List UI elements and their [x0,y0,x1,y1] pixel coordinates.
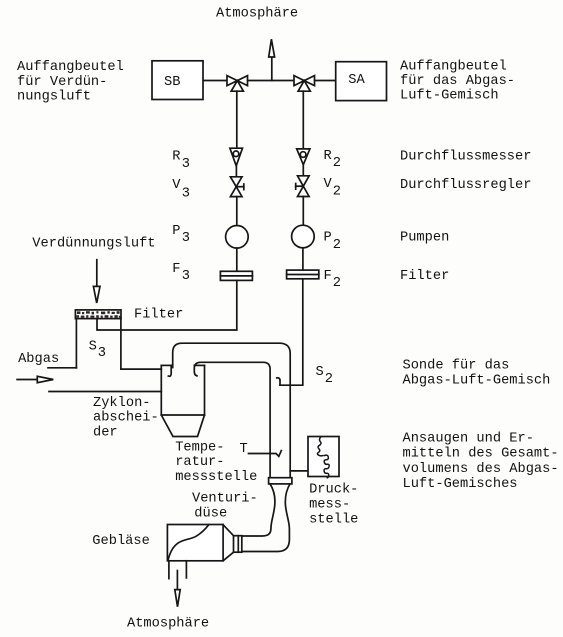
venturi left wall [241,484,275,536]
svg-text:2: 2 [333,238,341,253]
blower housing box [167,525,223,561]
svg-text:Luft-Gemisch: Luft-Gemisch [400,89,499,104]
venturi collar flange [269,478,292,484]
wire P3 to F3 [236,248,238,271]
svg-text:3: 3 [98,346,106,361]
pressure gauge box [308,437,339,477]
valve 3-way right [294,76,315,92]
wire left valve down to R3 [236,91,238,148]
pump P2 [292,225,315,248]
svg-text:Venturi-: Venturi- [192,492,258,507]
filter F3 [220,271,252,280]
svg-text:2: 2 [333,276,341,291]
blower flange [234,536,242,553]
svg-text:T: T [240,442,248,457]
svg-text:Abgas-Luft-Gemisch: Abgas-Luft-Gemisch [403,373,551,388]
chimney left wall [75,319,77,368]
svg-text:V: V [324,177,333,192]
pressure tap line [290,470,308,472]
flowmeter R2 [297,149,310,165]
svg-text:P: P [324,231,332,246]
pump P3 [226,226,249,249]
wire left valve to right valve [248,80,295,82]
crossover duct outer wall [173,343,291,478]
thermocouple T line [249,451,282,457]
cyclone body left wall [160,365,162,415]
chimney right wall [120,319,122,370]
valve V3 [230,177,243,197]
tank SB [152,61,203,100]
tank SA [336,62,387,101]
wire right valve to SA [315,80,336,82]
svg-text:F: F [324,269,332,284]
blower scroll curve [168,525,209,560]
blower outlet cone [223,525,233,561]
svg-text:Druck-: Druck- [309,483,358,498]
svg-text:Sonde für das: Sonde für das [403,358,510,373]
svg-text:nungsluft: nungsluft [17,90,91,105]
arrow exhaust down [175,571,180,607]
svg-text:2: 2 [333,185,341,200]
svg-text:Tempe-: Tempe- [175,440,224,455]
venturi right wall [241,484,290,552]
wire vent riser to atmosphere [271,57,273,81]
crossover duct inner wall / vortex finder [194,362,270,477]
inlet bottom edge [49,391,161,393]
cyclone top edge right [194,364,204,366]
duct top edge to cyclone [121,368,161,370]
arrow dilution air down [93,260,100,303]
cyclone inlet vane curl [168,365,171,376]
svg-text:3: 3 [182,269,190,284]
svg-text:Durchflussregler: Durchflussregler [400,178,531,193]
wire R3 to V3 [235,166,237,177]
svg-text:2: 2 [333,156,341,171]
svg-text:mitteln des Gesamt-: mitteln des Gesamt- [403,447,559,462]
svg-text:messstelle: messstelle [175,470,257,485]
svg-text:Atmosphäre: Atmosphäre [127,616,209,631]
blower exhaust duct walls [169,561,187,579]
probe S2 hook [277,378,280,385]
filter F2 [287,270,319,279]
wire F2 down to S2 probe [280,279,303,385]
wire V3 to P3 [236,197,238,226]
svg-text:Ansaugen und Er-: Ansaugen und Er- [403,432,534,447]
wire P2 to F2 [302,248,304,270]
filter (dilution air, stippled) [75,310,121,319]
svg-text:für Verdün-: für Verdün- [17,75,107,90]
svg-text:S: S [89,340,97,355]
svg-text:Verdünnungsluft: Verdünnungsluft [32,237,155,252]
svg-text:düse: düse [194,507,227,522]
arrowhead vent up [269,39,275,57]
svg-text:Abgas: Abgas [18,352,59,367]
svg-text:Gebläse: Gebläse [92,534,150,549]
svg-text:R: R [172,150,180,165]
svg-text:3: 3 [182,231,190,246]
svg-text:Pumpen: Pumpen [400,231,449,246]
cyclone top edge left [161,364,172,366]
svg-text:S: S [316,365,324,380]
svg-text:SB: SB [164,75,180,90]
svg-text:der: der [93,426,118,441]
svg-text:Filter: Filter [134,307,183,322]
cyclone funnel [161,415,204,437]
flowmeter R3 [230,148,243,166]
wire right valve down to R2 [302,91,304,149]
arrow Abgas inlet [17,376,53,382]
svg-text:ratur-: ratur- [175,455,224,470]
svg-text:Auffangbeutel: Auffangbeutel [400,60,507,75]
inlet mouth top edge [48,367,76,369]
svg-text:Luft-Gemisches: Luft-Gemisches [403,477,518,492]
wire V2 to P2 [302,197,304,226]
svg-text:abschei-: abschei- [93,411,159,426]
pressure trace squiggle 2 [324,455,329,478]
wire SB to left 3-way valve [203,80,227,82]
svg-text:Zyklon-: Zyklon- [93,396,151,411]
cyclone body right wall [204,365,206,415]
svg-text:2: 2 [325,372,333,387]
svg-text:P: P [172,224,180,239]
svg-text:3: 3 [182,157,190,172]
wire R2 to V2 [302,165,304,176]
svg-text:Durchflussmesser: Durchflussmesser [400,150,531,165]
pressure trace squiggle 1 [317,437,322,456]
svg-text:V: V [172,178,181,193]
svg-text:mess-: mess- [309,498,350,513]
svg-text:volumens des Abgas-: volumens des Abgas- [403,462,559,477]
svg-text:Atmosphäre: Atmosphäre [216,7,298,22]
valve 3-way left [227,76,248,92]
svg-text:F: F [172,262,180,277]
svg-text:stelle: stelle [309,513,358,528]
cyclone body bottom line [161,414,204,416]
wire F3 down to S3 branch [97,280,237,330]
svg-text:Filter: Filter [400,269,449,284]
svg-text:3: 3 [182,187,190,202]
svg-text:für das Abgas-: für das Abgas- [400,74,515,89]
svg-text:SA: SA [348,73,365,88]
valve V2 [296,176,309,197]
svg-text:R: R [324,149,332,164]
svg-text:Auffangbeutel: Auffangbeutel [17,60,124,75]
